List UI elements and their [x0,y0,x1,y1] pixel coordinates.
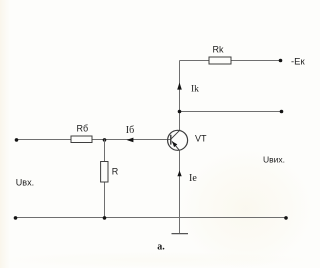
current arrow Ik [177,83,199,95]
current arrow Ib [126,125,134,142]
svg-text:Rб: Rб [77,124,89,134]
svg-text:Uвх.: Uвх. [16,178,34,188]
node bottom-right terminal dot [284,216,288,220]
current arrow Ie [177,171,197,184]
svg-text:R: R [112,167,119,177]
svg-text:Iб: Iб [126,125,134,136]
node -Ek terminal dot [279,59,283,63]
wire collector output horizontal [180,111,282,113]
wire base horizontal [17,139,172,141]
wire emitter vertical [179,151,181,234]
label a. [157,242,165,253]
ground [172,233,189,235]
svg-text:VT: VT [195,134,207,144]
svg-text:-Ек: -Ек [291,56,306,67]
node bottom R junction [103,216,107,220]
wire collector vertical [179,61,181,131]
svg-text:Rk: Rk [213,45,224,55]
label -Ek [291,56,306,67]
svg-text:Uвих.: Uвих. [263,154,285,164]
svg-text:а.: а. [157,242,165,253]
wire R branch vertical [104,140,106,218]
svg-text:Ik: Ik [191,85,199,95]
node bottom-left terminal dot [14,216,18,220]
svg-text:Ie: Ie [189,173,197,184]
node input terminal dot [15,138,19,142]
resistor R [101,162,119,183]
node output terminal dot [280,110,284,114]
resistor Rb [71,124,92,143]
label Uvyx (output voltage) [263,154,285,164]
wire bottom horizontal [16,217,287,219]
node collector junction [178,110,182,114]
node base divider junction [103,138,107,142]
label Uvx (input voltage) [16,178,34,188]
transistor VT [168,130,188,151]
label VT [195,134,207,144]
wire top horizontal (collector supply to -Ek) [180,60,281,62]
resistor Rk [209,45,231,65]
